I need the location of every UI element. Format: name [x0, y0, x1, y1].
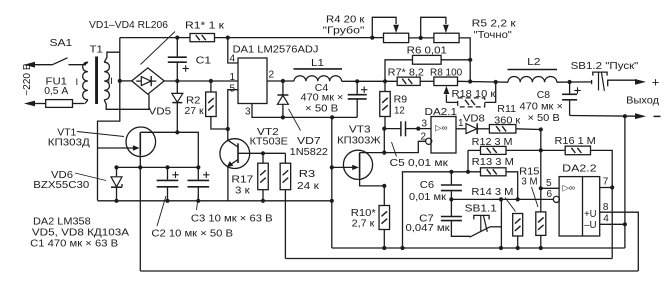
- label R3 24 k: [297, 169, 319, 192]
- label R18 10 k: [452, 89, 496, 100]
- node VD7 top junction: [281, 79, 285, 83]
- svg-text:Выход: Выход: [626, 96, 659, 107]
- svg-text:R17: R17: [231, 174, 253, 185]
- wire R11 to rail: [516, 128, 541, 131]
- label pin 1: [230, 72, 236, 83]
- svg-text:470 мк ×: 470 мк ×: [520, 102, 563, 113]
- node R2 top junction: [209, 79, 213, 83]
- label R13 3 M: [472, 157, 514, 168]
- inductor L1: [294, 69, 343, 81]
- label R15 3 M: [519, 167, 540, 188]
- node R4 left junction: [370, 36, 374, 40]
- label VT2 KT503E: [250, 127, 288, 147]
- svg-text:SB1.1: SB1.1: [465, 204, 498, 215]
- svg-text:"Грубо": "Грубо": [323, 25, 365, 37]
- svg-text:R5 2,2 к: R5 2,2 к: [472, 19, 516, 30]
- svg-text:4: 4: [603, 214, 609, 225]
- transformer T1 secondary winding II: [104, 62, 109, 100]
- svg-text:4: 4: [230, 54, 236, 65]
- label R11 360 k: [494, 104, 520, 127]
- wire DA2.2 pin7: [600, 187, 613, 189]
- wire upper AC lead: [35, 64, 52, 66]
- wire main rail bridge to DA1: [164, 80, 238, 82]
- node R12-R16 junction: [539, 148, 543, 152]
- label C2 10 mk x 50 V: [151, 229, 233, 240]
- svg-text:VD7: VD7: [297, 136, 321, 147]
- transistor VT1 KP303D: [98, 127, 178, 271]
- wire DA2.1 pin3 lead: [418, 128, 431, 130]
- svg-text:DA2.2: DA2.2: [562, 164, 597, 175]
- svg-text:L2: L2: [527, 57, 541, 68]
- potentiometer R8: [434, 77, 458, 102]
- resistor R9: [380, 81, 391, 128]
- wire divider rail: [540, 130, 542, 212]
- label Vyhod: [626, 96, 659, 107]
- label C8 470mk x 50V: [520, 90, 563, 124]
- label VD7 1N5822: [290, 136, 329, 158]
- net ~220V input lower arrow: [24, 101, 35, 107]
- svg-text:R4 20 к: R4 20 к: [326, 15, 365, 26]
- svg-text:C2 10 мк × 50 В: C2 10 мк × 50 В: [151, 229, 233, 240]
- label pin 5: [230, 83, 236, 94]
- label VD6 BZX55C30: [33, 170, 89, 191]
- transistor VT2 KT503E: [220, 129, 263, 201]
- wire DA2.2 pin5 lead: [541, 187, 559, 189]
- leader C3: [197, 194, 199, 210]
- op-chip DA1 LM2576ADJ box: [238, 58, 267, 104]
- wire R7-R8: [420, 80, 434, 82]
- resistor R14: [513, 214, 523, 249]
- svg-text:I: I: [76, 77, 79, 88]
- leader R15: [532, 187, 539, 207]
- op-amp DA2.1 box: [431, 117, 456, 154]
- node L2 left junction: [494, 80, 498, 84]
- leader VT1: [77, 132, 124, 137]
- svg-text:360 к: 360 к: [494, 115, 520, 126]
- wire R8 wiper to R18: [446, 101, 457, 103]
- wire R9-C5 node riser: [383, 129, 385, 153]
- node minus riser junction: [623, 114, 627, 118]
- svg-text:R16 1 М: R16 1 М: [555, 136, 596, 147]
- node VT3 source junction: [382, 184, 386, 188]
- capacitor C5: [384, 121, 418, 136]
- svg-text:0,01 мк: 0,01 мк: [409, 192, 446, 203]
- wire R5 right drop: [459, 38, 470, 82]
- label pin 2: [269, 70, 275, 81]
- svg-text:▷∞: ▷∞: [563, 183, 576, 193]
- node C8 top junction: [568, 80, 572, 84]
- capacitor C7: [441, 199, 470, 236]
- node VT3 drain junction: [382, 151, 386, 155]
- wire aux common rail: [98, 200, 332, 202]
- bubble DA2.1 inverting input: [426, 138, 432, 144]
- label winding II: [108, 76, 113, 87]
- wire DA2.2 pin4: [600, 223, 625, 225]
- svg-text:R7* 8,2: R7* 8,2: [388, 68, 425, 79]
- svg-text:+: +: [652, 75, 660, 90]
- svg-text:8: 8: [603, 202, 609, 213]
- svg-text:5: 5: [546, 178, 552, 189]
- node main rail R8 junction: [468, 79, 472, 83]
- wire bridge left AC: [120, 80, 132, 82]
- wire DA1 pin2 to L1: [267, 80, 294, 82]
- svg-text:1: 1: [230, 72, 236, 83]
- label pin 7: [603, 177, 609, 188]
- node pin7 junction: [610, 185, 614, 189]
- wire DA1 pin5 lead: [228, 90, 238, 129]
- svg-text:3 к: 3 к: [235, 185, 250, 196]
- svg-text:▷∞: ▷∞: [435, 123, 448, 133]
- svg-text:2,7 к: 2,7 к: [352, 219, 375, 230]
- wire pin7 bottom rail: [285, 258, 612, 260]
- node C3 top junction: [196, 165, 200, 169]
- wire FB riser from top rail: [98, 38, 120, 201]
- label DA2.2: [562, 164, 597, 175]
- node lower common rail junction: [330, 199, 334, 203]
- svg-text:R3: R3: [299, 169, 316, 180]
- wire DA2.2 pin8: [600, 212, 639, 271]
- svg-text:C1: C1: [196, 55, 212, 66]
- label legend C1 470mk: [30, 238, 118, 249]
- capacitor C4: [348, 81, 368, 117]
- node DA1 pin4 junction: [226, 36, 230, 40]
- svg-text:R10*: R10*: [351, 208, 376, 219]
- label legend VD5 VD8 KD103A: [32, 228, 129, 239]
- label pin 3: [245, 107, 251, 118]
- svg-text:470 мк ×: 470 мк ×: [301, 92, 344, 103]
- svg-text:0,5 А: 0,5 А: [44, 86, 68, 97]
- capacitor C1: [168, 38, 189, 81]
- label pin 4: [230, 54, 236, 65]
- wire pin7 riser: [611, 188, 613, 259]
- label pin 4 DA2.2: [603, 214, 609, 225]
- svg-text:КП303Ж: КП303Ж: [337, 135, 381, 146]
- svg-text:+U: +U: [584, 209, 597, 220]
- node C6 bottom junction: [449, 197, 453, 201]
- node R17 top junction: [261, 151, 265, 155]
- node VT3 gate junction: [330, 165, 334, 169]
- resistor R7: [397, 77, 420, 85]
- label R2 27 k: [184, 96, 204, 117]
- label VT3 KP303Zh: [337, 124, 381, 146]
- node SB1.1 top junction: [499, 197, 503, 201]
- svg-text:C5 0,01 мк: C5 0,01 мк: [390, 158, 449, 169]
- switch SA1: [52, 58, 86, 65]
- transformer T1 primary winding I: [83, 62, 88, 103]
- wire main rail L1 to R7: [342, 80, 398, 82]
- svg-text:3: 3: [422, 119, 428, 130]
- label FU1 0,5 A: [44, 76, 68, 97]
- node C2 bottom junction: [165, 199, 169, 203]
- label VD8: [463, 113, 485, 124]
- label pin 6 DA2.2: [547, 189, 553, 200]
- leader VD6: [75, 173, 106, 181]
- label L2: [527, 57, 541, 68]
- svg-text:BZX55C30: BZX55C30: [33, 180, 89, 191]
- diode VD7: [277, 81, 288, 117]
- wire top rail R1 to R4: [215, 37, 384, 39]
- svg-text:3 М: 3 М: [521, 177, 537, 188]
- node R9 bottom junction: [382, 127, 386, 131]
- svg-text:C8: C8: [537, 90, 551, 101]
- wire common bottom rail: [332, 247, 625, 249]
- wire top rail left segment: [120, 37, 190, 39]
- resistor R16: [541, 146, 612, 187]
- wire aux plus rail: [117, 166, 199, 168]
- svg-text:6: 6: [547, 189, 553, 200]
- bubble DA2.2 pin6: [553, 196, 559, 202]
- svg-text:R12 3 М: R12 3 М: [472, 137, 513, 148]
- label R6 0,01: [407, 45, 447, 56]
- svg-text:R11: R11: [497, 104, 516, 115]
- wire minus rail: [570, 115, 636, 118]
- node R5 left junction: [419, 36, 423, 40]
- node R14 bottom junction: [516, 246, 520, 250]
- wire common riser: [331, 117, 333, 248]
- label VD5: [149, 106, 172, 117]
- label R5 2,2 k Tochno: [472, 19, 516, 41]
- svg-text:VD5, VD8 КД103А: VD5, VD8 КД103А: [32, 228, 129, 239]
- node R9 top junction: [383, 79, 387, 83]
- node C4 junction: [355, 79, 359, 83]
- svg-text:C3 10 мк × 63 В: C3 10 мк × 63 В: [191, 213, 273, 224]
- net ~220V input upper arrow: [24, 62, 35, 68]
- node VD6 top junction: [114, 165, 118, 169]
- node R15 bottom junction: [539, 246, 543, 250]
- resistor R3: [280, 153, 291, 258]
- svg-text:DA2.1: DA2.1: [425, 107, 458, 118]
- label C6 0,01 mk: [409, 180, 446, 203]
- leader VD7: [289, 109, 301, 131]
- svg-text:24 к: 24 к: [297, 181, 319, 192]
- potentiometer R4: [372, 17, 408, 42]
- label winding I: [76, 77, 79, 88]
- svg-text:С1 470 мк × 63 В: С1 470 мк × 63 В: [30, 238, 118, 249]
- wire DA2.1 pin2 lead: [384, 141, 425, 152]
- label R14 3 M: [471, 187, 513, 198]
- wire between pots: [409, 37, 434, 39]
- label DA2.1 pin 2: [421, 132, 427, 143]
- svg-text:R2: R2: [186, 96, 201, 107]
- leader VD1-VD4: [141, 32, 176, 65]
- resistor R18: [458, 98, 485, 107]
- capacitor C6: [441, 172, 462, 200]
- capacitor C8: [562, 82, 581, 116]
- node VD7 anode junction: [281, 115, 285, 119]
- resistor R12: [468, 146, 541, 154]
- node R10 bottom junction: [382, 246, 386, 250]
- wire DA1 pin4 lead: [228, 38, 238, 63]
- transistor VT3 KP303Zh: [332, 150, 385, 186]
- svg-text:C6: C6: [420, 180, 435, 191]
- leader C2: [157, 196, 166, 226]
- wire main rail R8 to R18cnr: [458, 80, 496, 83]
- label C5 0,01 mk: [390, 158, 449, 169]
- wire L2 to C8 node: [557, 81, 592, 83]
- fuse FU1: [46, 100, 85, 108]
- svg-text:3: 3: [245, 107, 251, 118]
- svg-text:R6 0,01: R6 0,01: [407, 45, 447, 56]
- svg-text:R18 10 к: R18 10 к: [452, 89, 496, 100]
- resistor R10: [379, 186, 390, 248]
- node C6 top junction: [449, 170, 453, 174]
- node C2 top junction: [165, 165, 169, 169]
- bridge rectifier VD1-VD4: [132, 68, 165, 94]
- svg-text:27 к: 27 к: [184, 106, 204, 117]
- label SA1: [50, 38, 73, 49]
- label DA2.1 pin 3: [422, 119, 428, 130]
- wire plusU bottom rail: [140, 270, 638, 272]
- node C1/VD5 junction: [175, 79, 179, 83]
- pushbutton SB1.1: [470, 199, 502, 248]
- node pin4 junction: [623, 222, 627, 226]
- label R7* 8,2 R8 100: [388, 68, 463, 79]
- label R1* 1 k: [185, 20, 225, 31]
- svg-text:12: 12: [394, 105, 405, 116]
- resistor R1: [190, 34, 215, 42]
- svg-text:VT3: VT3: [349, 124, 371, 135]
- wire secondary bottom lead to bridge: [104, 94, 149, 109]
- svg-text:–U: –U: [584, 220, 597, 231]
- resistor R13: [481, 168, 518, 200]
- svg-text:R9: R9: [394, 95, 408, 106]
- label VT1 KP303D: [48, 128, 90, 149]
- resistor R15: [536, 212, 546, 248]
- svg-text:× 50 В: × 50 В: [528, 113, 560, 124]
- label R10* 2,7 k: [351, 208, 376, 230]
- capacitor C2: [157, 167, 179, 200]
- svg-text:5: 5: [230, 83, 236, 94]
- leader C5: [392, 142, 397, 157]
- node VT2 collector junction: [226, 127, 230, 131]
- svg-text:0,047 мк: 0,047 мк: [406, 223, 451, 234]
- svg-text:R14 3 М: R14 3 М: [471, 187, 513, 198]
- leader R14: [505, 198, 516, 212]
- node SB1.1 bottom junction: [499, 246, 503, 250]
- node C3 bottom junction: [196, 199, 200, 203]
- resistor R2: [206, 81, 228, 129]
- diode VD5: [172, 81, 183, 132]
- wire timing rail: [403, 172, 481, 248]
- resistor R6: [385, 55, 470, 81]
- svg-text:DA2 LM358: DA2 LM358: [33, 217, 91, 228]
- zener VD6: [111, 167, 122, 200]
- label DA1 LM2576ADJ: [233, 45, 319, 56]
- node R6 right junction: [468, 58, 472, 62]
- wire DA1 pin3 ground lead: [252, 104, 357, 118]
- label C7 0,047 mk: [406, 214, 451, 234]
- label pin 5 DA2.2: [546, 178, 552, 189]
- wire VD5 node to C3 riser: [177, 132, 198, 167]
- svg-text:II: II: [108, 76, 113, 87]
- label R17 3 k: [231, 174, 253, 196]
- node bridge-left junction: [118, 79, 122, 83]
- node R17 bottom junction: [261, 199, 265, 203]
- svg-text:2: 2: [421, 132, 427, 143]
- label pin 8: [603, 202, 609, 213]
- wire minus riser: [624, 116, 626, 248]
- label C1: [196, 55, 212, 66]
- wire secondary top lead: [104, 52, 120, 62]
- transformer T1 core: [95, 57, 98, 105]
- node VT1 source rail junction: [138, 165, 142, 169]
- node common riser top junction: [330, 115, 334, 119]
- node R13 rail junction: [466, 170, 470, 174]
- svg-text:Т1: Т1: [90, 45, 104, 56]
- wire R12 left drop: [467, 150, 469, 171]
- svg-text:КП303Д: КП303Д: [48, 137, 90, 148]
- resistor R17: [258, 153, 269, 201]
- capacitor C3: [188, 167, 210, 200]
- node pin5 junction: [539, 186, 543, 190]
- svg-text:2: 2: [269, 70, 275, 81]
- node VD5 bottom junction: [175, 130, 179, 134]
- label C3 10 mk x 63 V: [191, 213, 273, 224]
- wire DA2.1 pin1 output: [456, 128, 466, 130]
- output plus arrow: [635, 75, 659, 90]
- svg-text:DA1 LM2576ADJ: DA1 LM2576ADJ: [233, 45, 319, 56]
- svg-text:L1: L1: [311, 58, 324, 69]
- svg-text:R13 3 М: R13 3 М: [472, 157, 514, 168]
- svg-text:КТ503Е: КТ503Е: [250, 136, 288, 147]
- label R4 20 k Grubo: [323, 15, 365, 37]
- pushbutton SB1.2: [592, 72, 636, 91]
- label T1: [90, 45, 104, 56]
- label R16 1 M: [555, 136, 596, 147]
- wire lower AC lead: [35, 103, 46, 105]
- svg-text:SA1: SA1: [50, 38, 73, 49]
- svg-text:× 50 В: × 50 В: [305, 104, 338, 115]
- svg-text:"Точно": "Точно": [474, 30, 513, 41]
- wire VT2 base to R3: [263, 152, 285, 154]
- svg-text:~220 В: ~220 В: [22, 63, 33, 96]
- wire pin6 net: [451, 198, 553, 200]
- diode VD8: [466, 123, 489, 134]
- node R11 right junction: [539, 127, 543, 131]
- label SB1.1: [465, 204, 498, 215]
- node R14 top junction: [516, 197, 520, 201]
- potentiometer R5: [421, 17, 459, 42]
- resistor R11: [489, 125, 516, 134]
- label ~220 V: [22, 63, 33, 96]
- label R9 12: [394, 95, 408, 117]
- svg-text:7: 7: [603, 177, 609, 188]
- label legend DA2 LM358: [33, 217, 91, 228]
- label VD1-VD4 RL206: [89, 20, 168, 31]
- label C4 470mk x 50 V: [301, 83, 344, 115]
- label R12 3 M: [472, 137, 513, 148]
- node pin3 junction: [416, 127, 420, 131]
- svg-text:SB1.2 "Пуск": SB1.2 "Пуск": [571, 61, 639, 72]
- node VD6 bottom junction: [114, 199, 118, 203]
- svg-text:VD1–VD4 RL206: VD1–VD4 RL206: [89, 20, 168, 31]
- op-amp DA2.2 box: [559, 177, 600, 236]
- label SB1.2 Pusk: [571, 61, 639, 72]
- svg-text:VD8: VD8: [463, 113, 485, 124]
- output minus arrow: [635, 113, 661, 119]
- label DA2.1 pin 1: [458, 118, 464, 129]
- node timing rail bottom junction: [400, 246, 404, 250]
- svg-text:VD5: VD5: [149, 106, 172, 117]
- svg-text:R1* 1 к: R1* 1 к: [185, 20, 225, 31]
- wire R18 right riser: [485, 82, 496, 102]
- svg-text:1N5822: 1N5822: [290, 147, 329, 158]
- node C1 top junction: [175, 36, 179, 40]
- label L1: [311, 58, 324, 69]
- label DA2.1: [425, 107, 458, 118]
- inductor L2: [496, 70, 557, 83]
